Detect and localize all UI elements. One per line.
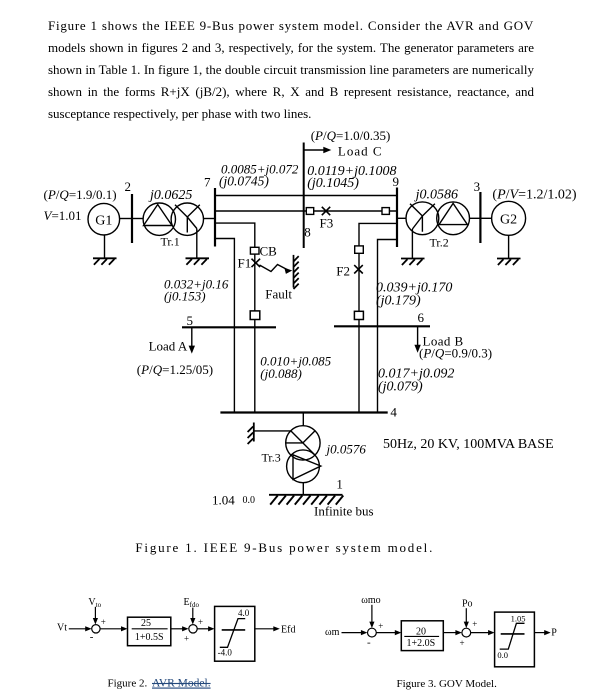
wire summer 2 to GOV limiter [471,630,495,635]
fault zigzag arrow [260,265,293,274]
wire bus 4 to Tr.3 [302,413,304,427]
svg-text:CB: CB [260,244,278,259]
svg-text:Load A: Load A [149,339,188,354]
infinite bus [269,495,343,505]
breaker CB [250,247,259,254]
svg-text:ωmo: ωmo [361,595,380,606]
svg-text:1+0.5S: 1+0.5S [135,632,164,643]
ground wire Tr.1 [196,229,198,259]
svg-text:j0.0586: j0.0586 [414,188,458,203]
wire bus 2 to Tr.1 [132,218,144,220]
wire GOV limiter to P [534,630,550,635]
svg-text:6: 6 [418,310,425,325]
svg-text:ωm: ωm [325,627,340,638]
generator G2 [492,201,526,235]
fault F2 [354,265,363,273]
wire limiter to Efd [255,626,280,631]
arrow Vto into summer [93,607,98,625]
wire line 7-5 circuit 2 (with CB) [215,223,255,412]
bus 9 [396,188,398,248]
fault hatch bar [294,255,299,289]
svg-text:+: + [378,621,383,631]
bus 7 [214,188,216,247]
svg-text:Fault: Fault [265,287,292,302]
svg-text:(j0.179): (j0.179) [376,294,421,309]
svg-text:+: + [101,617,106,627]
wire summer to AVR block [100,626,127,631]
transformer Tr.3 [286,426,321,483]
summing junction U2a [368,628,377,637]
ground wire Tr.3 [254,430,291,432]
svg-text:Tr.3: Tr.3 [262,451,281,465]
summing junction U2b [462,628,471,637]
breaker on line 8-9 left [306,208,313,215]
arrow omega-mo into summer [369,605,374,628]
summing junction U1a [92,625,100,633]
wire summer 2 to limiter [197,626,214,631]
svg-text:(P/Q=0.9/0.3): (P/Q=0.9/0.3) [419,346,492,361]
load B arrow [414,326,420,353]
svg-text:-: - [367,636,371,648]
wire omega-m to summer [342,630,368,635]
svg-text:(P/Q=1.0/0.35): (P/Q=1.0/0.35) [311,128,391,143]
svg-text:+: + [198,617,203,627]
load A arrow [189,327,195,353]
svg-text:(j0.153): (j0.153) [164,289,206,304]
ground wire Tr.2 [411,229,413,259]
svg-text:(P/Q=1.9/0.1): (P/Q=1.9/0.1) [44,187,117,202]
svg-text:-4.0: -4.0 [218,648,233,658]
svg-text:+: + [472,619,477,629]
breaker line 7-5 lower [250,311,260,320]
fault F3 [322,207,330,215]
bus 5 [182,326,276,328]
svg-text:-: - [90,631,94,643]
ground Tr.2 [401,259,425,266]
svg-text:F1: F1 [238,256,252,271]
ground wire G1 [104,235,106,258]
svg-text:25: 25 [141,618,151,629]
svg-text:G1: G1 [95,213,112,228]
svg-text:20: 20 [416,626,426,637]
svg-text:1: 1 [336,477,343,492]
svg-text:P: P [551,627,557,638]
generator G1 [88,203,120,235]
svg-text:(j0.088): (j0.088) [260,366,302,381]
svg-text:4: 4 [390,405,397,420]
svg-text:Load C: Load C [338,144,383,159]
AVR transfer block 25/(1+0.5S) [128,617,171,646]
AVR limiter block [215,606,255,661]
transformer Tr.2 [406,202,470,235]
svg-text:0.0: 0.0 [497,650,508,660]
svg-text:(P/V=1.2/1.02): (P/V=1.2/1.02) [492,188,576,203]
ground G1 [93,258,117,265]
svg-text:1.05: 1.05 [511,613,526,623]
breaker line 9-6 lower [354,311,363,319]
wire Tr.2 to bus 3 [470,217,481,219]
svg-text:Vt: Vt [57,623,67,634]
svg-text:Efd: Efd [281,624,295,635]
wire block to summer 2 [171,626,189,631]
ground Tr.1 [186,258,210,265]
transformer Tr.1 [143,203,203,235]
svg-text:V=1.01: V=1.01 [44,208,82,223]
wire Tr.1 to bus 7 [204,218,216,220]
svg-text:+: + [184,633,189,643]
svg-text:F3: F3 [320,216,334,231]
svg-text:0.0: 0.0 [243,495,256,506]
bus 8 [303,143,305,249]
ground G2 [497,259,521,266]
bus 6 [334,325,430,327]
arrow Efdo into summer [190,608,195,625]
svg-text:2: 2 [125,179,132,194]
arrow Po into summer [464,608,469,628]
svg-text:j0.0625: j0.0625 [148,188,192,203]
svg-text:Tr.1: Tr.1 [161,235,180,249]
svg-text:(j0.0745): (j0.0745) [219,174,269,189]
svg-text:j0.0576: j0.0576 [325,442,367,457]
svg-text:AVR Model.: AVR Model. [152,678,211,690]
fault F1 [252,259,261,267]
load C arrow [304,147,332,153]
wire line 9-6 circuit 2 (with F2) [359,223,397,412]
paragraph text [48,15,534,125]
GOV limiter block [495,612,535,667]
svg-text:+: + [460,638,465,648]
svg-text:8: 8 [304,225,311,240]
svg-text:7: 7 [204,175,211,190]
svg-text:Po: Po [462,598,473,609]
wire line 7-8-9 circuit 2 [215,210,397,212]
svg-text:(j0.1045): (j0.1045) [307,176,359,191]
wire GOV block to summer 2 [443,630,462,635]
svg-text:Infinite bus: Infinite bus [314,504,374,519]
svg-text:Efdo: Efdo [184,597,200,609]
bus 3 [479,192,481,243]
breaker on line 8-9 right [382,208,389,215]
wire summer to GOV block [377,630,402,635]
wire G1 to bus 2 [120,218,132,220]
bus 2 [131,194,133,243]
svg-text:Figure 3. GOV Model.: Figure 3. GOV Model. [397,678,498,690]
svg-text:4.0: 4.0 [238,608,250,618]
wire bus 3 to G2 [480,217,491,219]
svg-text:(j0.079): (j0.079) [378,380,423,395]
breaker line 9-6 upper [355,246,364,253]
svg-text:Tr.2: Tr.2 [430,236,449,250]
svg-text:Figure 1. IEEE 9-Bus power sy: Figure 1. IEEE 9-Bus power system model. [135,540,434,555]
wire Tr.3 to infinite bus [302,483,304,495]
svg-text:50Hz, 20 KV, 100MVA BASE: 50Hz, 20 KV, 100MVA BASE [383,437,554,452]
svg-text:G2: G2 [500,212,517,227]
wire line 7-8-9 circuit 1 [215,195,397,197]
svg-text:Figure 2.: Figure 2. [108,678,148,690]
wire bus 9 to Tr.2 [397,217,406,219]
summing junction U1b [189,625,197,633]
svg-text:5: 5 [187,313,194,328]
ground Tr.3 [248,423,254,445]
wire line 7-5 circuit 1 [215,239,234,413]
ground wire G2 [508,235,510,258]
wire line 9-6 circuit 1 [378,240,398,413]
svg-text:3: 3 [474,179,481,194]
svg-text:F2: F2 [336,264,350,279]
bus 4 [220,411,387,413]
svg-text:(P/Q=1.25/05): (P/Q=1.25/05) [137,362,213,377]
svg-text:1.04: 1.04 [212,493,235,508]
wire Vt to summer [69,626,92,631]
GOV transfer block 20/(1+2.0S) [401,621,443,651]
svg-text:1+2.0S: 1+2.0S [406,638,435,649]
